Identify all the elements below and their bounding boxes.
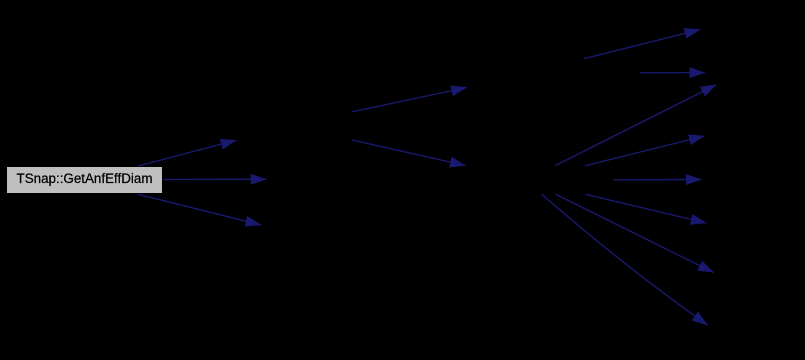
edge B1: level-1 node a to level-2 node upper bbox=[351, 88, 467, 113]
edge A3: root bottom edge to level-1 node c bbox=[138, 194, 261, 225]
edge C2: level-2 upper node to rightmost node row 2 bbox=[640, 72, 705, 74]
edge D2: level-2 lower node to rightmost node row 3 bbox=[585, 136, 705, 166]
edge D5: level-2 lower node to rightmost node row 6 bbox=[556, 194, 714, 272]
svg-text:TSnap::GetAnfEffDiam: TSnap::GetAnfEffDiam bbox=[17, 171, 153, 186]
edge C3: level-2 lower node to rightmost node row 2 (steep up) bbox=[555, 85, 716, 166]
edge A1: root top edge to level-1 node a bbox=[138, 140, 236, 166]
node TSnap::GetAnfEffDiam (root, grey box) bbox=[7, 167, 163, 193]
edge D3: level-2 lower node to rightmost node row 4 (horizontal) bbox=[613, 179, 702, 181]
edge D4: level-2 lower node to rightmost node row 5 bbox=[586, 194, 707, 223]
edge D6: level-2 lower node to rightmost node row 7 (steep down) bbox=[542, 194, 708, 325]
edge B2: level-1 node a to level-2 node lower bbox=[352, 140, 466, 166]
edge A2: root right edge to level-1 node b bbox=[163, 178, 266, 180]
edge C1: level-2 upper node to rightmost node row 1 bbox=[584, 30, 700, 59]
